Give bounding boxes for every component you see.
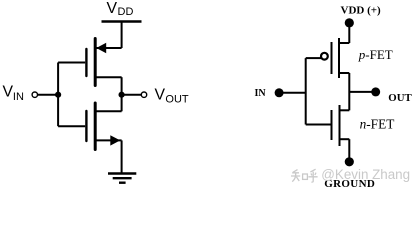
svg-text:V: V	[155, 87, 166, 104]
label V_OUT	[155, 87, 189, 106]
wire PMOS drain down to output node	[121, 77, 123, 95]
svg-text:IN: IN	[13, 91, 24, 103]
node input junction dot	[55, 92, 61, 98]
wire IN dot to gate bus	[279, 92, 306, 94]
wire n-FET source to ground dot	[348, 139, 350, 162]
wire p-FET drain to n-FET drain (output bus)	[348, 73, 350, 110]
svg-text:DD: DD	[118, 6, 134, 18]
terminal GROUND dot	[345, 157, 354, 166]
wire to n-FET gate	[306, 124, 331, 126]
svg-text:@Kevin Zhang: @Kevin Zhang	[321, 167, 410, 182]
svg-text:V: V	[107, 0, 118, 17]
wire input terminal to junction	[38, 94, 59, 96]
wire to NMOS gate	[58, 125, 85, 127]
wire to p-FET bubble	[306, 57, 322, 59]
terminal IN dot	[275, 88, 284, 97]
ground symbol	[108, 174, 136, 183]
watermark zhihu logo 知乎	[291, 169, 318, 182]
transistor Q2 NMOS (left circuit, IEEE symbol)	[86, 103, 121, 150]
svg-text:VDD (+): VDD (+)	[341, 4, 382, 16]
wire NMOS source to ground	[121, 140, 123, 173]
wire OUT tap	[349, 91, 375, 93]
svg-text:p-FET: p-FET	[358, 47, 393, 62]
wire gate bus vertical	[305, 58, 307, 124]
wire NMOS drain up to output node	[121, 95, 123, 112]
transistor n-FET (right circuit, simplified symbol)	[332, 105, 350, 146]
wire to PMOS gate	[58, 62, 85, 64]
transistor Q1 PMOS (left circuit, IEEE symbol)	[86, 39, 121, 86]
wire VDD bar to PMOS source	[121, 22, 123, 49]
terminal OUT dot	[371, 87, 380, 96]
node output junction dot	[119, 92, 125, 98]
svg-text:IN: IN	[255, 88, 267, 99]
power rail VDD bar	[102, 20, 142, 23]
label V_DD (left circuit supply name)	[107, 0, 134, 18]
wire input bus vertical	[57, 63, 59, 127]
terminal V_OUT open circle	[141, 92, 146, 97]
terminal V_IN open circle	[32, 92, 37, 97]
svg-text:OUT: OUT	[165, 94, 189, 106]
wire VDD dot to p-FET source	[348, 23, 350, 43]
svg-text:n-FET: n-FET	[360, 116, 395, 131]
terminal VDD dot	[345, 18, 354, 27]
label V_IN	[3, 83, 24, 103]
transistor p-FET (right circuit, simplified symbol with bubble)	[321, 38, 349, 78]
svg-text:OUT: OUT	[388, 92, 412, 104]
wire output node to terminal	[122, 94, 142, 96]
svg-text:V: V	[3, 83, 14, 100]
